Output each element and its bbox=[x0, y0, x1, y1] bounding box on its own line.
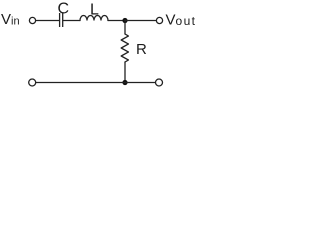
wire inductor L to node A bbox=[108, 20, 125, 22]
svg-text:C: C bbox=[58, 1, 70, 18]
junction node B bbox=[122, 80, 127, 85]
wire Vin terminal to capacitor C bbox=[36, 20, 59, 22]
wire node A down to resistor R bbox=[124, 21, 126, 35]
wire resistor R to bottom node B bbox=[124, 62, 126, 83]
terminal bottom-left bbox=[29, 79, 36, 86]
resistor R bbox=[121, 34, 128, 62]
svg-text:Vin: Vin bbox=[1, 11, 20, 28]
svg-text:Vout: Vout bbox=[166, 12, 197, 29]
inductor L bbox=[80, 16, 108, 21]
wire bottom rail left bbox=[36, 82, 126, 84]
svg-text:R: R bbox=[136, 41, 147, 58]
wire node A to Vout terminal bbox=[125, 20, 156, 22]
wire capacitor C to inductor L bbox=[63, 20, 80, 22]
terminal Vout bbox=[156, 17, 162, 23]
junction node A bbox=[122, 18, 127, 23]
capacitor C bbox=[60, 13, 63, 27]
terminal bottom-right bbox=[156, 79, 163, 86]
terminal Vin bbox=[29, 17, 35, 23]
wire bottom rail right bbox=[125, 82, 156, 84]
svg-text:L: L bbox=[90, 2, 99, 19]
